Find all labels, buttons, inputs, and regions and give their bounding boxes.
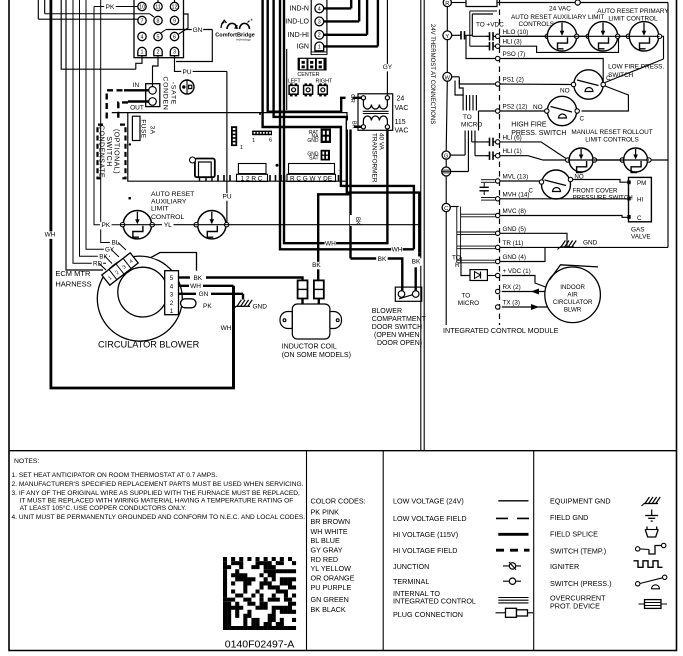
wire GN from blower pin 3 (179, 293, 197, 295)
svg-text:3: 3 (170, 292, 174, 299)
svg-text:WH: WH (190, 283, 201, 290)
svg-text:NOTES:: NOTES: (14, 458, 39, 465)
svg-text:1: 1 (240, 145, 243, 151)
svg-text:GY GRAY: GY GRAY (311, 545, 343, 554)
wire HLO to limits (500, 35, 545, 37)
svg-text:technology: technology (236, 38, 251, 42)
condensate switch dashed wiring (107, 90, 123, 121)
aux limit switch 2 (198, 211, 226, 239)
wire PK to aux limit (94, 7, 120, 225)
wire HLI1 (475, 155, 488, 157)
svg-text:HIGH FIRE: HIGH FIRE (511, 122, 547, 129)
field splice symbol (645, 530, 658, 538)
wire MVL double (481, 179, 495, 181)
label OR (346, 95, 353, 103)
svg-text:AT LEAST 105°C. USE COPPER CO: AT LEAST 105°C. USE COPPER CONDUCTORS ON… (20, 504, 187, 512)
svg-text:MVL (13): MVL (13) (503, 174, 529, 181)
wire RX with arrow (502, 291, 549, 293)
wire GND4 double (457, 259, 496, 261)
ComfortBridge logo (221, 22, 225, 28)
svg-text:R C G W Y DE: R C G W Y DE (290, 175, 332, 182)
wire PS2 (479, 110, 496, 112)
wire to P1 pin 7 (38, 18, 137, 20)
wire IND-HI (324, 34, 367, 36)
terminal C (442, 203, 450, 211)
svg-text:IN: IN (133, 82, 140, 89)
wire +VDC to blower (502, 276, 548, 289)
svg-text:1 2 R C: 1 2 R C (241, 175, 263, 182)
svg-text:IND-HI: IND-HI (288, 32, 309, 39)
svg-text:R: R (445, 1, 449, 7)
svg-text:TO: TO (463, 114, 472, 121)
wire P1 pin 6 stub (179, 14, 188, 34)
svg-text:WH: WH (221, 325, 232, 332)
inductor coil body (280, 312, 342, 329)
terminal R (443, 0, 451, 7)
wire Y to plugs (452, 34, 459, 36)
wire HLI3 (470, 45, 488, 47)
wire HLI6 to rollout (500, 142, 566, 159)
svg-text:MANUAL RESET ROLLOUT: MANUAL RESET ROLLOUT (571, 129, 652, 136)
svg-text:PS2 (12): PS2 (12) (503, 104, 528, 111)
svg-text:2. MANUFACTURER'S SPECIFIED RE: 2. MANUFACTURER'S SPECIFIED REPLACEMENT … (12, 481, 304, 488)
svg-text:BK: BK (193, 275, 202, 282)
svg-text:IND-LO: IND-LO (285, 19, 309, 26)
terminal block R C G W Y DE (289, 164, 335, 174)
wire BL to ECM (101, 0, 118, 243)
wire BK from blower pin 5 to inductor (179, 276, 191, 278)
wire 24VAC top (451, 2, 466, 4)
wire IND-N (324, 7, 352, 9)
svg-text:WH: WH (45, 232, 56, 239)
aux limit control B (579, 35, 586, 37)
rollout limit control B (597, 159, 621, 161)
junction terminal (hatched) (442, 167, 451, 176)
svg-text:PU: PU (182, 69, 191, 76)
svg-text:CIRCULATOR: CIRCULATOR (553, 299, 593, 306)
svg-text:24: 24 (397, 96, 405, 103)
svg-text:PU PURPLE: PU PURPLE (311, 583, 352, 592)
svg-text:6: 6 (173, 34, 176, 40)
svg-text:BK: BK (312, 262, 321, 269)
svg-text:WH: WH (325, 241, 336, 248)
low fire pressure switch (574, 70, 603, 99)
svg-text:G: G (444, 154, 448, 160)
svg-text:CONDENSATE: CONDENSATE (98, 125, 105, 178)
svg-text:BLOWER: BLOWER (372, 308, 402, 315)
svg-text:1: 1 (252, 138, 255, 144)
svg-text:TO: TO (452, 255, 461, 262)
aux limit switch 1 (123, 211, 151, 239)
svg-text:DOOR OPEN): DOOR OPEN) (377, 340, 422, 347)
svg-text:R: R (455, 262, 460, 269)
legend top rule (9, 450, 677, 452)
svg-text:TO: TO (462, 293, 471, 300)
wire MVC double (461, 213, 496, 215)
svg-text:MICRO: MICRO (458, 300, 479, 307)
wire PS2 to NO (500, 110, 545, 112)
svg-text:10: 10 (139, 4, 145, 10)
wire to +VDC risers (469, 11, 471, 46)
svg-text:FRONT COVER: FRONT COVER (573, 188, 618, 195)
svg-text:GN: GN (193, 27, 203, 34)
wire TR double (457, 245, 496, 247)
wire bundle v5 (WH to transformer) (284, 0, 387, 243)
front cover pressure switch (542, 170, 571, 199)
connector condensate (146, 84, 160, 107)
svg-text:BK: BK (351, 121, 357, 129)
wire through aux circles (120, 224, 229, 226)
terminal symbol (503, 580, 521, 582)
svg-text:4. UNIT MUST BE PERMANENTLY GR: 4. UNIT MUST BE PERMANENTLY GROUNDED AND… (12, 514, 306, 521)
blower compartment door switch (395, 287, 421, 301)
connector IND (4-pin) (310, 0, 312, 54)
aux limit control A (545, 34, 549, 38)
svg-text:C: C (444, 206, 448, 212)
wire OUT (128, 100, 149, 102)
wire vertical x45 (44, 0, 46, 14)
capacitor internal (MV) (480, 186, 489, 188)
ground at blower (242, 294, 244, 300)
wire bundle vertical 1 (to ECM) (66, 0, 103, 270)
svg-text:WH WHITE: WH WHITE (311, 527, 348, 536)
wire right edge 24VAC return (667, 3, 669, 248)
svg-text:LOW VOLTAGE FIELD: LOW VOLTAGE FIELD (393, 514, 467, 523)
svg-text:LIMIT CONTROLS: LIMIT CONTROLS (585, 137, 639, 144)
svg-text:AIR: AIR (567, 292, 578, 299)
thermostat bus wire (446, 7, 448, 31)
svg-text:OR: OR (349, 94, 355, 103)
svg-text:7: 7 (141, 18, 144, 24)
svg-text:GND: GND (307, 138, 319, 144)
svg-text:6: 6 (269, 137, 272, 143)
svg-text:FUSE: FUSE (140, 119, 147, 139)
svg-text:LOW VOLTAGE (24V): LOW VOLTAGE (24V) (393, 496, 464, 505)
svg-text:11: 11 (155, 4, 161, 10)
splice PU on board (180, 80, 194, 94)
svg-text:GY: GY (383, 64, 393, 71)
svg-text:DOOR SWITCH: DOOR SWITCH (372, 324, 423, 331)
indoor air circulator blower (545, 267, 601, 323)
P1 pin 7 (138, 16, 146, 24)
svg-text:YL YELLOW: YL YELLOW (311, 564, 352, 573)
svg-text:BR BROWN: BR BROWN (311, 517, 351, 526)
svg-text:EQUIPMENT GND: EQUIPMENT GND (550, 496, 611, 505)
svg-text:+ VDC (1): + VDC (1) (503, 268, 531, 275)
svg-text:LIMIT CONTROL: LIMIT CONTROL (608, 16, 658, 23)
svg-text:GAS: GAS (631, 227, 645, 234)
plug connection left (298, 280, 308, 298)
svg-text:COMPARTMENT: COMPARTMENT (372, 316, 427, 323)
module pin terminals (496, 34, 500, 38)
svg-text:4: 4 (318, 6, 321, 12)
wire WH down from pin4 junction (232, 286, 235, 388)
jumper RIGHT (290, 83, 293, 85)
diode (470, 270, 487, 281)
wire GND4 join (500, 247, 545, 261)
svg-text:BK: BK (378, 256, 387, 263)
svg-text:(OPEN WHEN: (OPEN WHEN (374, 332, 420, 339)
diagnostic display (298, 58, 327, 71)
svg-text:Y: Y (445, 34, 449, 40)
svg-text:IND-N: IND-N (290, 6, 309, 13)
P1 pin 5 (154, 32, 162, 40)
board bottom terminal ticks (217, 175, 219, 182)
junction 24VAC (575, 0, 580, 5)
P1 pin 4 (138, 32, 146, 40)
P1 pin 6 (170, 32, 178, 40)
plug connection symbol (496, 612, 534, 614)
svg-text:ECM MTR: ECM MTR (55, 269, 91, 278)
svg-text:GND: GND (583, 240, 598, 247)
terminal G (442, 151, 450, 159)
svg-text:INTEGRATED CONTROL: INTEGRATED CONTROL (393, 597, 476, 606)
legend column rules (306, 451, 308, 651)
svg-text:1: 1 (170, 308, 174, 315)
IND pin 4 (315, 4, 324, 13)
wire GND5 to ground (500, 233, 567, 247)
wire HLI3 return (500, 38, 619, 53)
terminal W (443, 72, 452, 81)
svg-text:MVC (8): MVC (8) (503, 208, 526, 215)
svg-text:WH: WH (392, 247, 403, 254)
svg-text:BLWR: BLWR (564, 307, 582, 314)
svg-text:W: W (445, 75, 451, 81)
wire W to PS2 (455, 81, 464, 96)
P1 pin 8 (154, 16, 162, 24)
P1 pin 9 (170, 16, 178, 24)
wire bundle v3 (274, 0, 420, 252)
wire HLO (472, 35, 488, 37)
TO MICRO fan upper (462, 95, 464, 110)
svg-text:C: C (606, 75, 611, 82)
svg-text:MICRO: MICRO (461, 122, 482, 129)
svg-text:IGN: IGN (297, 44, 309, 51)
wire IN (124, 89, 149, 91)
wire RD (73, 0, 106, 263)
svg-text:PRESS. SWITCH: PRESS. SWITCH (511, 130, 566, 137)
svg-text:OUT: OUT (130, 105, 144, 112)
svg-text:VAC: VAC (395, 105, 409, 112)
svg-text:MVH (14): MVH (14) (503, 191, 530, 198)
svg-text:4: 4 (170, 283, 174, 290)
terminal Y (443, 31, 452, 40)
ECM harness connector (102, 253, 138, 285)
integrated control board outline (112, 113, 347, 182)
svg-text:INTEGRATED CONTROL MODULE: INTEGRATED CONTROL MODULE (443, 326, 559, 335)
svg-text:BK: BK (99, 254, 108, 261)
wire P1 pin 1 down (136, 56, 142, 69)
svg-text:24V THERMOST AT CONNECTIONS: 24V THERMOST AT CONNECTIONS (429, 24, 435, 124)
svg-text:HI VOLTAGE (115V): HI VOLTAGE (115V) (393, 530, 458, 539)
wires into ECM connector (118, 243, 126, 251)
wire P1 pin 11 up (157, 0, 159, 2)
svg-text:VALVE: VALVE (631, 234, 651, 241)
relay on board (195, 159, 215, 178)
IND pin 3 (315, 17, 324, 26)
svg-text:BK: BK (354, 217, 360, 225)
circulator blower scroll (97, 256, 182, 341)
svg-text:AUTO RESET PRIMARY: AUTO RESET PRIMARY (597, 8, 669, 15)
P1 pin 11 (154, 2, 162, 10)
svg-text:GN GREEN: GN GREEN (311, 595, 349, 604)
svg-text:SWITCH (TEMP.): SWITCH (TEMP.) (550, 546, 606, 555)
svg-text:C: C (637, 215, 642, 222)
svg-text:8: 8 (157, 18, 160, 24)
display panel left edge (286, 49, 288, 110)
P1 pin 1 (138, 47, 146, 55)
overcurrent symbol (639, 603, 668, 605)
wire bundle v1 (263, 0, 414, 249)
svg-text:PM: PM (637, 180, 646, 187)
wire YL (162, 222, 174, 230)
svg-text:PK: PK (106, 4, 115, 11)
svg-text:3. IF ANY OF THE ORIGINAL WIRE: 3. IF ANY OF THE ORIGINAL WIRE AS SUPPLI… (12, 490, 301, 497)
wire BK to inductor plug (318, 194, 350, 280)
svg-text:COLOR CODES:: COLOR CODES: (311, 496, 366, 505)
internal triple line symbol (498, 597, 528, 599)
svg-text:(ON SOME MODELS): (ON SOME MODELS) (282, 352, 351, 359)
svg-text:YL: YL (164, 222, 172, 229)
svg-text:GN: GN (199, 291, 209, 298)
wire GND5 double (457, 231, 496, 233)
blower pigtail PK (181, 299, 197, 308)
svg-text:CONTROL: CONTROL (151, 214, 184, 221)
wire HLI1 to rollout (500, 156, 566, 160)
svg-text:3: 3 (173, 50, 176, 56)
plug connection right (314, 280, 324, 298)
connector P1 (12-pin) (134, 0, 184, 58)
svg-text:PK: PK (101, 222, 110, 229)
wire HLI6 (472, 141, 488, 143)
svg-text:RD RED: RD RED (311, 555, 339, 564)
wire GN from P1 pin 5 (161, 30, 167, 34)
module dashed boundary (499, 0, 501, 325)
svg-text:CENTER: CENTER (297, 72, 319, 78)
terminal block 1 2 R C (238, 164, 266, 174)
svg-text:PK PINK: PK PINK (311, 508, 340, 517)
svg-text:NO: NO (560, 88, 570, 95)
header 1-6 on board (252, 131, 272, 136)
svg-text:FIELD GND: FIELD GND (550, 513, 588, 522)
wire WH main (115V) (51, 0, 234, 388)
wire PSO branch (466, 35, 495, 58)
svg-text:LIMIT: LIMIT (151, 206, 168, 213)
wire bundle v4 (WH) (280, 0, 414, 249)
svg-text:2: 2 (157, 50, 160, 56)
header J1 on board (231, 126, 237, 146)
wire TR (500, 246, 668, 248)
wire PK to P1 pin 10 (94, 6, 138, 8)
wire C to internal bus (450, 206, 458, 208)
wire MVH to gas valve HI (500, 198, 628, 200)
svg-text:9: 9 (173, 18, 176, 24)
svg-text:-SATE: -SATE (170, 82, 177, 106)
wire IGN (324, 45, 378, 47)
svg-text:GND: GND (253, 304, 268, 311)
svg-text:RD: RD (93, 261, 103, 268)
svg-text:PS1 (2): PS1 (2) (503, 77, 524, 84)
svg-text:4: 4 (141, 34, 144, 40)
svg-text:PU: PU (222, 193, 231, 200)
svg-text:TR (11): TR (11) (503, 240, 524, 247)
svg-text:LOW FIRE PRESS.: LOW FIRE PRESS. (608, 64, 664, 71)
svg-text:C: C (580, 116, 585, 123)
high fire pressure switch (547, 96, 576, 125)
svg-text:HLI (3): HLI (3) (503, 39, 522, 46)
svg-text:HARNESS: HARNESS (55, 280, 91, 289)
IND pin 2 (315, 30, 324, 39)
svg-text:BK: BK (412, 258, 421, 265)
svg-text:NO: NO (533, 104, 543, 111)
svg-text:24 VAC: 24 VAC (549, 6, 571, 13)
wire vertical x61 to condensate (61, 0, 136, 69)
svg-text:5: 5 (157, 34, 160, 40)
wire GY to ECM (86, 0, 114, 249)
switch temp symbol (636, 547, 640, 551)
svg-text:AUTO RESET: AUTO RESET (151, 191, 194, 198)
svg-text:(OPTIONAL): (OPTIONAL) (113, 129, 120, 174)
svg-text:GND (4): GND (4) (503, 254, 526, 261)
svg-text:1. SET HEAT ANTICIPATOR ON ROO: 1. SET HEAT ANTICIPATOR ON ROOM THERMOST… (12, 472, 218, 479)
blower pin block (165, 271, 179, 315)
junction symbol (503, 565, 521, 567)
field gnd symbol (651, 510, 653, 516)
wire BK door switch right (418, 252, 420, 256)
wire PU from P1 pin 3 to aux limit switch (175, 56, 227, 72)
wire BK to ECM (80, 0, 111, 256)
svg-text:PK: PK (203, 303, 212, 310)
wire low fire C to high fire C (582, 86, 629, 111)
wire vertical x38 (37, 0, 39, 19)
svg-text:OR ORANGE: OR ORANGE (311, 574, 355, 583)
wire MVC to gas valve C (500, 216, 628, 218)
wire to P1 pin 8 (45, 13, 150, 15)
svg-text:5: 5 (170, 275, 174, 282)
svg-text:SWITCH: SWITCH (608, 72, 634, 79)
gas valve (629, 177, 652, 221)
svg-text:1: 1 (141, 50, 144, 56)
svg-text:TRANSFORMER: TRANSFORMER (371, 133, 378, 183)
wire G to fan (450, 154, 465, 156)
wire front cover NO to gas valve PM (573, 180, 628, 183)
svg-text:CONTROLS: CONTROLS (519, 21, 555, 28)
wire MVH double (481, 197, 495, 199)
wires plugs to coil (301, 299, 303, 307)
P1 pin 2 (154, 47, 162, 55)
svg-text:CIRCULATOR BLOWER: CIRCULATOR BLOWER (98, 340, 200, 350)
rollout limit control A (566, 158, 570, 162)
svg-text:CONDEN: CONDEN (162, 76, 169, 110)
wire P1 pin 12 up (174, 0, 176, 2)
svg-text:HI: HI (637, 197, 643, 204)
svg-text:RX (2): RX (2) (503, 284, 521, 291)
svg-text:PLUG CONNECTION: PLUG CONNECTION (393, 610, 463, 619)
wire W to PS1 (452, 76, 460, 78)
section divider (left/right) (420, 0, 422, 451)
svg-text:JUNCTION: JUNCTION (393, 562, 429, 571)
ground symbol TR (560, 246, 574, 248)
igniter symbol (634, 561, 663, 568)
svg-text:2: 2 (318, 33, 321, 39)
P1 pin 3 (170, 47, 178, 55)
switch press symbol (636, 582, 640, 586)
svg-text:115: 115 (395, 119, 406, 126)
wire junction terminal to fan (451, 171, 469, 173)
svg-text:1: 1 (318, 45, 321, 51)
svg-text:2: 2 (170, 300, 174, 307)
svg-text:HLI (1): HLI (1) (503, 148, 522, 155)
